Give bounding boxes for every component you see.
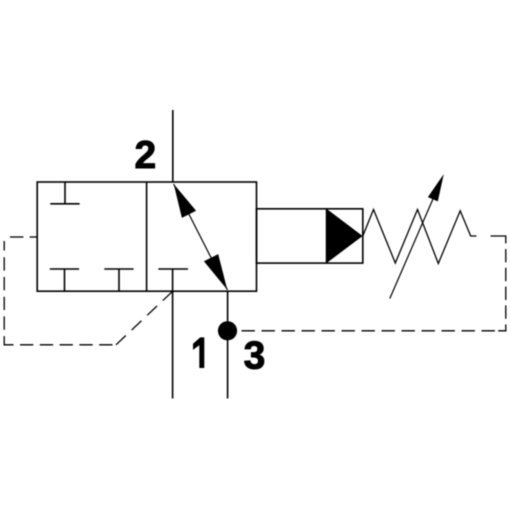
pilot line right, bottom corner wrap: [498, 325, 506, 331]
pilot actuator box: [257, 209, 363, 263]
blocked port T (left position, port 1 bottom): [50, 269, 79, 291]
svg-text:3: 3: [244, 334, 266, 377]
position divider line: [146, 182, 148, 291]
flow path arrow 2-3 (double headed): [174, 184, 228, 290]
pilot line left, top horizontal dashes (y=237): [10, 236, 37, 238]
port 3 line (bottom): [227, 291, 229, 398]
pilot line left, bottom horizontal dashes (y=344.8): [20, 344, 113, 346]
spring (zigzag): [363, 210, 477, 264]
pilot pressure triangle: [327, 209, 363, 263]
pilot line left, diagonal dashes to valve bottom: [116, 291, 173, 345]
pilot line left, vertical dashes (x=4.2): [4, 241, 13, 345]
port 1 line (bottom): [172, 291, 174, 398]
blocked port T (right position, port 1 bottom): [158, 269, 188, 291]
port 2 line (top): [172, 110, 174, 182]
blocked port T (left position, port 2 top): [50, 182, 79, 204]
junction node (port 3 / pilot line): [218, 321, 237, 340]
label 1: [193, 337, 204, 368]
pilot line right, vertical dashes (x=505.8): [505, 249, 507, 319]
blocked port T (left position, port 3 bottom): [104, 269, 133, 291]
pilot line right, bottom horizontal dashes (y=330.8): [242, 330, 496, 332]
pilot line right, top horizontal dash with corner wrap: [491, 236, 506, 243]
spring adjustment arrow: [390, 174, 444, 299]
valve body envelope (two-position): [37, 182, 256, 291]
svg-text:2: 2: [135, 134, 157, 177]
